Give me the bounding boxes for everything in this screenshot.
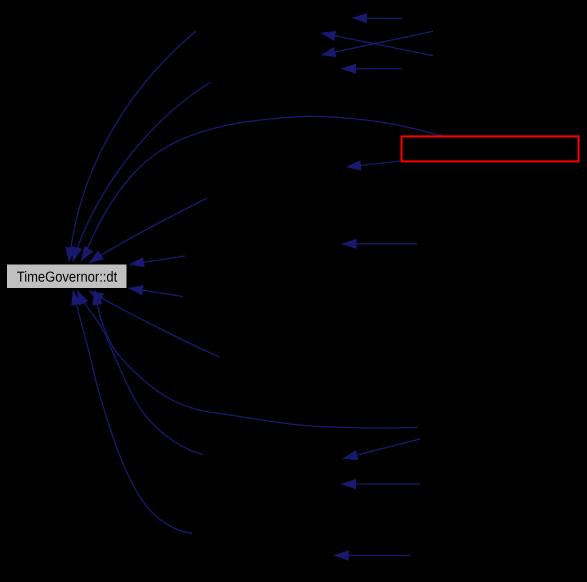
wire arrow T1 second-level: [352, 17, 402, 20]
wire edge A caller curve into dt: [69, 31, 196, 262]
wire arrow T4 second-level: [342, 68, 403, 70]
wire edge B caller curve into dt: [73, 82, 211, 262]
node highlighted red box: [402, 136, 579, 161]
svg-text:TimeGovernor::dt: TimeGovernor::dt: [17, 270, 118, 286]
wire edge S4 caller curve into dt bottom: [73, 291, 192, 534]
wire arrow A2 second-level: [342, 483, 420, 485]
wire arrow T3 second-level crossing: [321, 31, 433, 55]
wire arrow M1 second-level: [342, 243, 418, 245]
node TimeGovernor::dt: [7, 264, 128, 289]
wire arrow T2 second-level crossing: [321, 33, 433, 56]
wire edge G caller line into dt right edge: [129, 288, 184, 297]
wire arrow A1 second-level: [343, 439, 421, 459]
wire edge C from red node into dt: [81, 116, 443, 261]
wire edge S3 caller curve into dt bottom: [77, 291, 203, 455]
wire edge H caller curve into dt bottom: [89, 291, 220, 357]
wire edge F caller line into dt right edge: [130, 256, 186, 265]
wire arrow A0 from red node to hidden node: [347, 161, 401, 167]
wire edge I caller curve into dt bottom: [95, 291, 418, 429]
wire arrow A3 second-level: [334, 555, 410, 557]
wire edge D caller line into dt: [89, 198, 207, 263]
